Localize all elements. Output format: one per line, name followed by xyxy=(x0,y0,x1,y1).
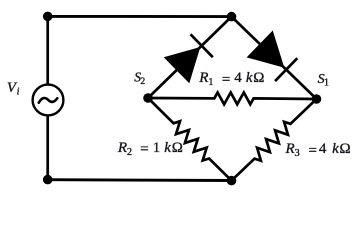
resistor R1 xyxy=(148,93,317,105)
node S1 xyxy=(312,94,322,104)
node S2 xyxy=(143,93,153,103)
svg-text:R1=4kΩ: R1=4kΩ xyxy=(198,70,264,88)
source Vi xyxy=(33,85,64,116)
svg-text:R3=4kΩ: R3=4kΩ xyxy=(285,141,351,159)
svg-text:Vi: Vi xyxy=(7,80,20,97)
node bottom-left xyxy=(43,175,53,185)
wire arm S2-apex xyxy=(148,17,232,98)
resistor R2 xyxy=(148,98,232,181)
diode D2 xyxy=(248,32,297,81)
node apex top xyxy=(227,12,237,22)
node top-left xyxy=(43,12,53,22)
resistor R3 xyxy=(232,99,317,181)
wire arm apex-S1 xyxy=(232,17,317,99)
wire left lower xyxy=(46,115,49,180)
svg-text:R2=1kΩ: R2=1kΩ xyxy=(117,140,183,158)
diode D1 xyxy=(165,34,213,82)
wire bottom xyxy=(48,178,232,182)
wire top xyxy=(48,15,232,18)
svg-text:S1: S1 xyxy=(318,72,329,88)
svg-text:S2: S2 xyxy=(134,70,145,87)
node bottom center xyxy=(227,176,237,186)
wire left upper xyxy=(46,16,49,85)
